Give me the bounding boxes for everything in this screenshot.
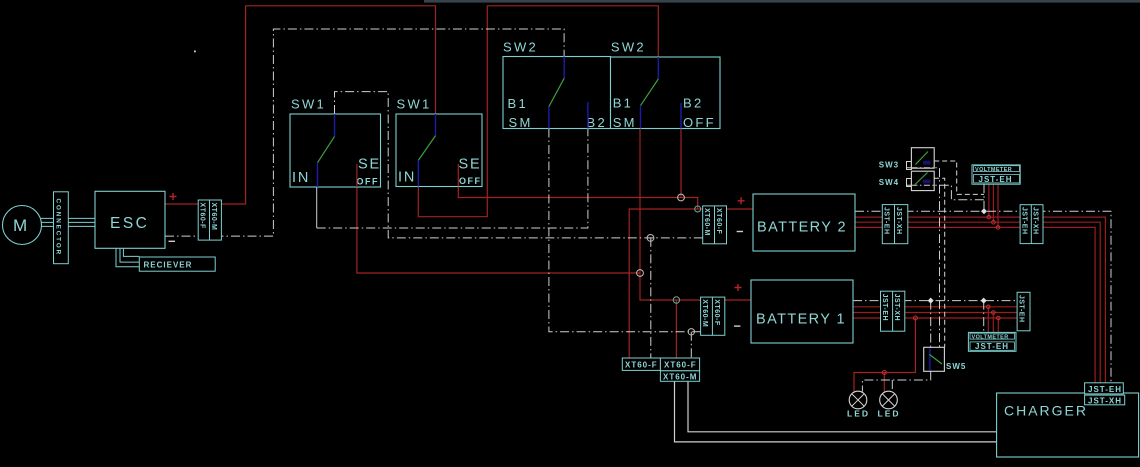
voltmeter 2 — [968, 332, 1016, 351]
switch SW5 — [924, 347, 967, 371]
voltmeter 1 — [972, 165, 1020, 184]
svg-text:B1: B1 — [613, 96, 634, 111]
wire ESC minus to SW2a common dash-dot — [165, 29, 564, 236]
plus sign battery2 — [738, 197, 745, 204]
svg-text:M: M — [13, 216, 27, 235]
minus sign battery2 — [737, 231, 743, 233]
node SE1/B1 — [637, 270, 644, 277]
svg-text:JST-EH: JST-EH — [881, 294, 888, 322]
battery BATTERY 1 — [751, 280, 853, 343]
svg-text:BATTERY 1: BATTERY 1 — [756, 311, 846, 327]
wire XT60 to battery1 plus stub (red) — [725, 299, 751, 301]
svg-text:SW5: SW5 — [946, 362, 966, 371]
switch SW2 A — [503, 40, 611, 131]
wire voltmeter2 red taps — [988, 307, 998, 333]
wire XT60 to battery2 plus stub (red) — [727, 208, 754, 210]
switch SW1 B — [396, 97, 482, 187]
svg-text:BATTERY 2: BATTERY 2 — [757, 219, 847, 235]
wire battery1 balance white dash-dot — [853, 300, 1017, 302]
wire battery1 balance red 2 (red) — [853, 312, 1017, 314]
ESC U1 — [95, 191, 165, 248]
wire connector to ESC (cyan) — [68, 218, 95, 226]
connector JST-EH single battery1 end — [1017, 292, 1030, 331]
wire motor to connector (cyan) — [41, 218, 54, 226]
wire SW1a SE to node 640,273 (red) — [357, 164, 640, 273]
svg-text:RECIEVER: RECIEVER — [144, 261, 193, 270]
node red LED branch — [882, 371, 886, 375]
wire battery1 balance red 1 (red) — [853, 306, 1017, 308]
minus sign ESC — [169, 240, 176, 242]
minus sign battery1 — [734, 325, 740, 327]
wire SW1b SE to node 681,197.5 (red) — [458, 164, 681, 198]
svg-text:SM: SM — [509, 115, 533, 130]
svg-text:XT60-M: XT60-M — [663, 373, 697, 382]
svg-text:XT60-F: XT60-F — [713, 299, 720, 326]
svg-text:JST-XH: JST-XH — [895, 207, 902, 235]
wire battery1 balance red 3 (red) — [853, 317, 1017, 319]
svg-text:IN: IN — [292, 170, 310, 186]
connector XT60-F charge lead battery2 — [622, 358, 660, 370]
node battery1 minus — [688, 329, 694, 335]
wire ESC plus to SW1b common (red) — [165, 6, 436, 204]
lamp LED 1 — [847, 391, 870, 418]
node red LED tap — [913, 316, 917, 320]
node battery2 plus — [695, 206, 701, 212]
svg-text:JST-EH: JST-EH — [979, 175, 1013, 184]
node diamond voltmeter2 white — [981, 298, 987, 304]
connector JST-EH/JST-XH battery2 — [882, 205, 908, 244]
connector JST-XH at charger — [1085, 395, 1125, 405]
svg-text:JST-XH: JST-XH — [1088, 396, 1122, 405]
wire SW5 out to LEDs dash-dot — [862, 371, 930, 391]
svg-text:SW1: SW1 — [291, 97, 326, 112]
wire LED2 supply branch (red) — [883, 373, 885, 392]
svg-text:SW3: SW3 — [879, 160, 899, 169]
switch SW4 — [879, 171, 934, 190]
svg-text:VOLTMETER: VOLTMETER — [975, 167, 1012, 173]
connector XT60-F charge lead battery1 — [660, 358, 699, 371]
node battery1 plus — [673, 297, 679, 303]
wire SW3 pole to SW5 dash-dot — [907, 168, 940, 347]
svg-text:IN: IN — [398, 170, 416, 186]
wire SW1a IN to SW2a B2 dash-dot — [317, 129, 588, 229]
wire battery2 balance red 2 (red) — [855, 222, 1100, 383]
wire charger lead 1 (white) — [675, 381, 997, 442]
svg-text:SW4: SW4 — [879, 178, 899, 187]
svg-text:LED: LED — [878, 409, 901, 419]
wire voltmeter1 white tap dash-dot — [983, 184, 985, 211]
top border bar — [424, 0, 1140, 3]
wire SW2a B1 to battery1 minus dash-dot — [549, 129, 701, 332]
svg-text:SE: SE — [358, 157, 381, 173]
wire node to battery2 plus XT60 (red) — [681, 198, 703, 210]
wire SW1a IN pin drop (white) — [316, 187, 318, 228]
switch SW2 B — [611, 40, 721, 131]
svg-text:JST-EH: JST-EH — [1021, 207, 1028, 235]
node junction SE2/B2 — [678, 194, 685, 201]
wire charger lead 2 (white) — [688, 381, 997, 432]
svg-text:XT60-F: XT60-F — [664, 361, 697, 370]
connector XT60-M charger side — [660, 371, 699, 382]
wire battery2 balance red 3 (red) — [855, 227, 1095, 382]
svg-text:JST-XH: JST-XH — [1032, 207, 1039, 235]
wire LED supply from balance tap (red) — [854, 318, 915, 392]
svg-text:LED: LED — [847, 409, 870, 419]
wire battery2 plus branch to XT60-F charge lead (red) — [629, 209, 698, 358]
wire SW1b IN to SW2b common via top rail (red) — [418, 6, 658, 217]
plus sign battery1 — [735, 284, 742, 291]
connector JST-EH at charger — [1085, 383, 1124, 394]
svg-text:VOLTMETER: VOLTMETER — [972, 334, 1009, 340]
node red taps voltmeter2 — [987, 305, 1001, 320]
wire voltmeter2 white tap dash-dot — [983, 301, 985, 333]
connector CONNECTOR — [54, 192, 69, 264]
connector XT60-M/XT60-F at battery1 — [701, 297, 725, 335]
node diamond SW5 white — [928, 298, 934, 304]
node diamond voltmeter1 white — [981, 208, 987, 214]
svg-text:JST-EH: JST-EH — [1088, 385, 1122, 394]
svg-text:B2: B2 — [683, 96, 704, 111]
node red taps voltmeter1 — [987, 215, 1000, 229]
wire LED2 return branch dash-dot — [891, 380, 893, 392]
svg-text:CONNECTOR: CONNECTOR — [55, 199, 62, 257]
svg-text:JST-XH: JST-XH — [893, 294, 900, 322]
svg-text:JST-EH: JST-EH — [883, 207, 890, 235]
wire battery2 balance red 1 (red) — [855, 217, 1105, 383]
svg-text:JST-EH: JST-EH — [1018, 295, 1025, 323]
wire SW1a common bypass to battery2 minus dash-dot — [335, 92, 703, 238]
connector XT60-F/XT60-M at ESC — [198, 200, 221, 240]
svg-text:JST-EH: JST-EH — [975, 342, 1009, 351]
wire battery1 minus branch to XT60 pair dash-dot — [690, 332, 692, 358]
stray dot — [194, 51, 196, 53]
switch SW1 A — [290, 97, 381, 188]
svg-text:SE: SE — [459, 157, 482, 173]
connector XT60-M/XT60-F at battery2 — [703, 206, 727, 244]
wire SW2c B2 down to node (red) — [680, 129, 682, 198]
battery BATTERY 2 — [753, 194, 855, 251]
svg-text:OFF: OFF — [683, 115, 716, 130]
wire ESC to receiver (cyan) — [116, 248, 139, 266]
wire SW4 throw to SW5 dashed — [934, 178, 945, 347]
svg-text:OFF: OFF — [459, 176, 482, 186]
svg-text:SM: SM — [613, 115, 637, 130]
svg-text:B2: B2 — [587, 115, 608, 130]
receiver RECIEVER — [139, 257, 215, 271]
wire SW2b B1 down to battery1 plus (red) — [640, 129, 701, 301]
plus sign ESC — [170, 193, 177, 200]
motor M — [3, 206, 42, 245]
svg-text:SW2: SW2 — [611, 40, 646, 55]
charger CHARGER — [997, 393, 1139, 457]
switch SW3 — [879, 148, 934, 170]
lamp LED 2 — [878, 391, 901, 418]
svg-text:XT60-F: XT60-F — [199, 203, 206, 230]
wire SW3 throw to voltmeter junction dashed — [934, 161, 984, 194]
wire voltmeter1 red taps — [989, 184, 998, 227]
svg-text:SW2: SW2 — [503, 40, 538, 55]
svg-text:ESC: ESC — [110, 215, 149, 232]
svg-text:XT60-F: XT60-F — [625, 361, 658, 370]
svg-text:OFF: OFF — [357, 177, 380, 187]
wire battery1 plus branch to XT60-F spare (red) — [675, 300, 677, 358]
wire SW4 pole to junction dash-dot — [907, 185, 984, 200]
connector JST-EH/JST-XH battery1 — [881, 291, 905, 331]
svg-text:B1: B1 — [508, 96, 529, 111]
node battery2 minus — [647, 235, 654, 242]
svg-text:XT60-F: XT60-F — [715, 208, 722, 235]
svg-text:XT60-M: XT60-M — [701, 299, 708, 327]
svg-text:CHARGER: CHARGER — [1004, 403, 1088, 419]
svg-text:XT60-M: XT60-M — [703, 208, 710, 236]
svg-text:SW1: SW1 — [397, 97, 432, 112]
connector JST-EH/JST-XH pair2 — [1020, 205, 1043, 244]
wire battery2 minus branch to XT60-F charge lead dash-dot — [650, 238, 652, 358]
wire battery2 balance white dash-dot — [855, 211, 1111, 383]
wire SW5 feed from battery1 white dash-dot — [930, 301, 932, 348]
svg-text:XT60-M: XT60-M — [210, 203, 217, 231]
